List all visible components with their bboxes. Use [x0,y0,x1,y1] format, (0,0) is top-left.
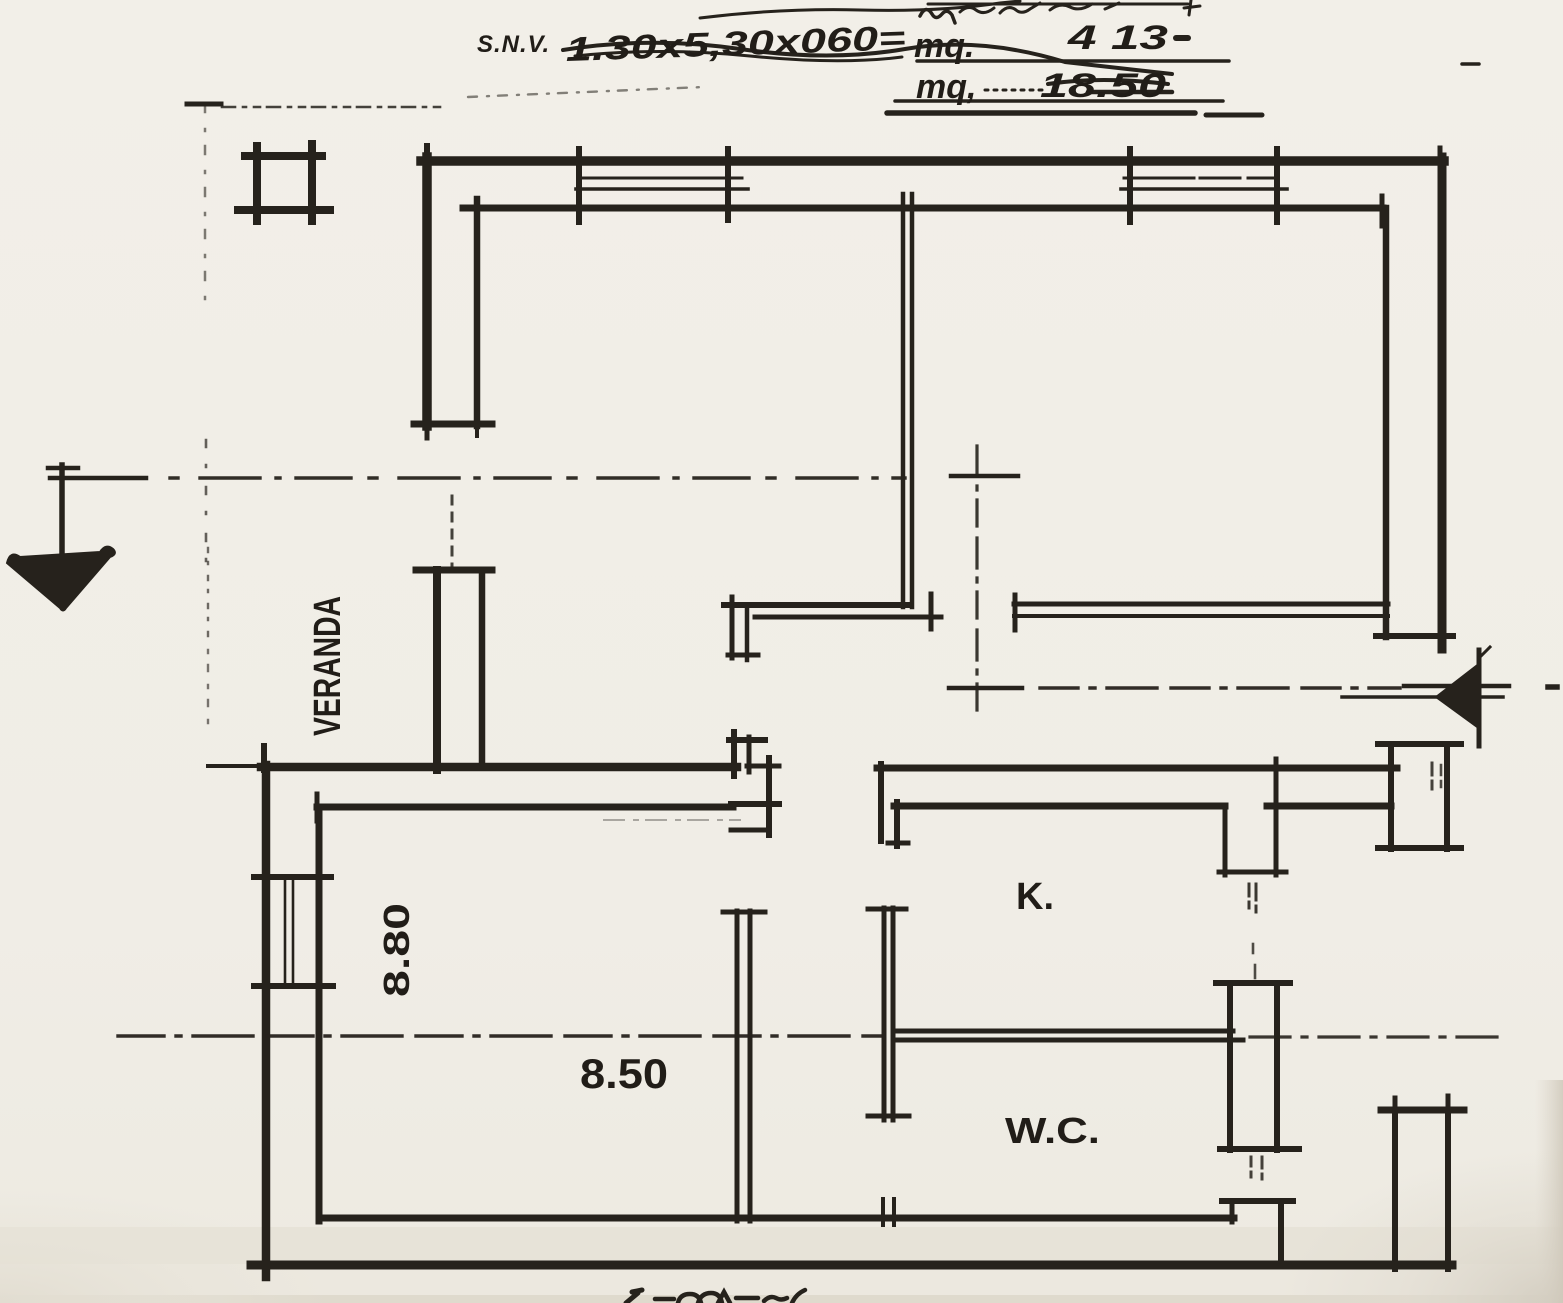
svg-text:4 13: 4 13 [1066,19,1168,57]
hall-east wall left tick [1013,595,1018,630]
top edge extra squiggles [1000,3,1040,13]
lower-left outer wall [262,765,271,1277]
west window glazing [284,877,287,986]
top edge t mark [1184,0,1200,15]
hall-east double wall [1014,602,1388,607]
right wall bottom cap [1376,633,1453,639]
outer top wall [421,156,1444,166]
dashes below west window [319,994,322,1060]
bottom-right rect corner stubs [1393,1098,1398,1112]
left wall bottom cap [414,421,492,428]
axis Y3 dash-dot left part [118,1034,880,1037]
room south inner wall [319,1215,1234,1222]
inner left wall [474,199,481,426]
axis P vertical dash-dot [975,446,978,712]
K north wall [877,765,1397,772]
veranda south wall left tick [315,794,320,821]
K south wall west part [894,803,1225,810]
axis Y3 dash-dot right part [1250,1035,1505,1038]
flue rect bottom tick [1220,1146,1299,1152]
svg-text:mq,: mq, [916,68,976,106]
small dash top right [1462,62,1479,66]
axis Y1 cross at vertical axis P [951,474,1018,479]
veranda door dashes [451,496,454,566]
K door riser foot [888,841,908,846]
underline 3 right dash [1206,113,1262,118]
axis Y1 solid left segment [50,476,146,481]
top edge cut-off scribble line [700,1,1020,18]
window jamb tick W2 left [1127,149,1133,222]
svg-text:K.: K. [1016,876,1054,918]
hall door jamb assembly [731,732,737,776]
axis Y1 dash-dot [170,476,905,479]
bottom-right rect top tick [1381,1107,1464,1114]
hall wall right tick [929,594,934,629]
svg-text:W.C.: W.C. [1005,1110,1100,1151]
east arrow lines [1404,684,1509,689]
outer left wall [422,157,432,426]
svg-text:mq.: mq. [914,27,974,65]
veranda north wall [261,763,737,772]
east arrow trailing dot [1548,684,1557,690]
svg-text:18.50: 18.50 [1040,67,1166,105]
strike over 18.50 [1048,80,1168,84]
hall north wall upper line [724,602,908,608]
underline 2 [895,99,1223,103]
north arrow top tick [48,466,78,471]
axis Y2 dash-dot [1040,686,1400,689]
K south wall east part [1267,803,1391,810]
axis dash-dot horizontal top [222,106,444,109]
pillar square top-left [245,152,322,160]
inner top wall right tick [1380,196,1385,226]
bottom cut-off letter tops [626,1290,642,1303]
window jamb tick W2 right [1274,149,1280,222]
arrow rect verticals [1388,744,1394,849]
west window tick top [254,874,331,880]
veranda west wall outer [433,570,441,770]
right inner wall [1383,208,1390,637]
K west riser [878,764,884,841]
K door riser [894,802,900,846]
top wall right end tick [1438,148,1443,178]
flue rect top tick [1216,980,1290,986]
window1 glazing lines [582,177,742,180]
bottom-left corner shading [0,1190,330,1303]
veranda north riser [261,746,267,770]
bottom-right rect verticals [1392,1110,1398,1269]
window jamb tick W1 right [725,149,731,220]
wc west wall pair [882,908,887,1120]
middle south wall pair [735,911,740,1221]
top edge cut-off word mq [920,9,955,23]
window jamb tick W1 left [576,149,582,222]
shadow band between bottom walls [0,1227,1563,1264]
west window tick bottom [254,983,333,989]
faint pencil dashes room1 [604,819,740,821]
underline 1 [917,59,1229,63]
arrow rect inner dashes [1431,763,1434,793]
underline 3 [887,110,1195,116]
east arrow base line [1477,650,1482,746]
south door jamb ticks [881,1199,885,1225]
right page edge shadow [1535,1080,1563,1303]
top edge horizontal rule [928,3,1188,6]
strikethrough wave 2 [575,52,902,61]
right outer wall [1438,157,1447,649]
wc west wall ticks [868,907,906,912]
strikethrough dotted lead-in [468,87,703,97]
axis Y2 start cross [949,686,1022,691]
flue rect verticals [1227,983,1233,1150]
hall wall left jamb [730,597,735,658]
veranda west wall inner [479,570,486,766]
east arrow triangle [1436,663,1480,729]
axis vertical dashes left column [204,104,207,302]
dashes below flue [1250,1157,1253,1181]
K door swing dashes [1248,884,1251,916]
svg-text:8.50: 8.50 [580,1050,668,1097]
svg-text:8.80: 8.80 [376,903,417,997]
bottom-right corner shading [1280,1150,1563,1303]
wc east rect tick [1222,1198,1293,1204]
K door jamb left [1223,806,1228,875]
K door jamb right [1274,759,1279,875]
lower-left inner wall [316,807,323,1221]
top wall left corner stub [424,146,430,178]
axis tick top-left [187,102,221,107]
center partition double wall [901,194,906,607]
K door bottom tick [1219,870,1286,875]
wc east rect verticals [1230,1201,1235,1222]
hall north wall lower line [755,615,941,620]
wc north wall double [894,1029,1233,1034]
window2 glazing lines [1124,177,1284,180]
svg-text:VERANDA: VERANDA [307,596,349,736]
veranda north wall thin extension [208,764,261,768]
south outer wall [251,1261,1452,1270]
veranda south wall [317,804,733,811]
strikethrough wave 1 [563,43,1172,74]
dots after mq second line [985,89,1042,92]
equals mark after 413 [1176,35,1188,41]
svg-text:S.N.V.: S.N.V. [477,31,550,58]
arrow rect ticks [1378,741,1461,747]
middle south wall top tick [723,910,765,915]
veranda west wall cap [416,567,492,574]
north arrow vertical line [59,465,65,561]
inner top wall [463,205,1383,212]
bottom paper strip [0,1264,1563,1303]
north arrow triangle [7,547,115,611]
